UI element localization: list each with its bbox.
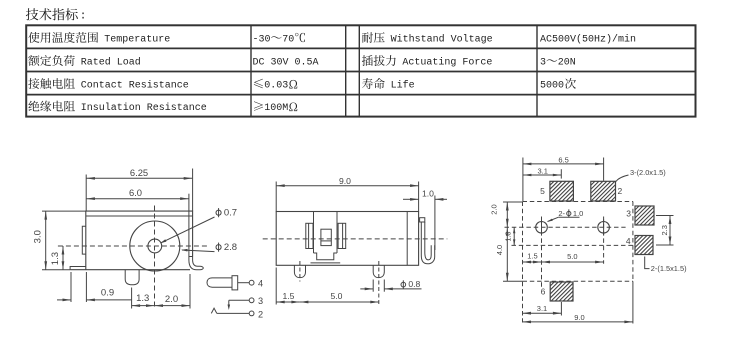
svg-text:3.1: 3.1 <box>537 167 547 176</box>
svg-text:2.0: 2.0 <box>490 204 499 214</box>
front view body outline <box>276 212 418 266</box>
svg-text:1.3: 1.3 <box>50 252 61 265</box>
svg-text:0.8: 0.8 <box>408 279 420 289</box>
svg-text:2-: 2- <box>558 209 565 218</box>
side view left foot <box>70 267 86 270</box>
side view big circle (barrel) <box>130 221 180 271</box>
svg-text:70: 70 <box>282 34 294 45</box>
svg-text:3.1: 3.1 <box>537 304 547 313</box>
svg-text:5.0: 5.0 <box>331 291 343 301</box>
svg-text:Rated Load: Rated Load <box>81 56 141 68</box>
svg-text:1.0: 1.0 <box>422 189 434 199</box>
front view left leg <box>294 265 305 277</box>
table cell DC 30V 0.5A <box>253 57 319 68</box>
svg-text:9.0: 9.0 <box>339 176 351 186</box>
table cell 接触电阻 Contact Resistance <box>28 78 188 91</box>
front view inner right wall <box>406 212 408 266</box>
hole left 2-phi1.0 <box>536 219 548 235</box>
svg-text:6: 6 <box>541 287 546 297</box>
svg-text:3: 3 <box>540 57 546 68</box>
label 3-(2.0x1.5) with leader <box>616 168 666 182</box>
hole right 2-phi1.0 <box>598 219 610 235</box>
dimension 1.5 footprint <box>523 252 542 264</box>
dimension 3.1 top footprint <box>523 167 561 179</box>
table cell <=0.03 ohm <box>254 79 298 92</box>
table cell 插拔力 Actuating Force <box>362 55 493 68</box>
footprint hole centerlines vertical <box>542 217 604 289</box>
svg-text::: : <box>80 11 87 23</box>
dimension 3.1 bottom footprint <box>523 302 562 316</box>
dimension 9.0 front <box>276 176 418 212</box>
svg-text:Insulation Resistance: Insulation Resistance <box>81 102 207 114</box>
front view cavity walls <box>314 212 338 254</box>
table cell 5000次 <box>540 78 576 92</box>
svg-text:5000: 5000 <box>540 81 564 92</box>
dimension 2.0 <box>155 274 191 309</box>
dimension 3.0 <box>33 211 86 270</box>
pad 2 (hatched) <box>571 181 639 201</box>
front view left contact spring <box>306 223 313 248</box>
svg-text:2.0: 2.0 <box>165 294 178 305</box>
dimension phi 0.8 front <box>360 279 421 292</box>
dimension 1.0 front <box>403 189 447 250</box>
svg-text:1.0: 1.0 <box>573 209 583 218</box>
dimension 6.5 footprint <box>523 155 604 201</box>
svg-text:3: 3 <box>258 296 263 306</box>
label phi 2.8 with leader <box>181 242 237 253</box>
schematic collar of pin 4 <box>232 276 238 290</box>
svg-text:2-(1.5x1.5): 2-(1.5x1.5) <box>651 264 687 273</box>
svg-text:1.3: 1.3 <box>503 232 512 242</box>
svg-text:DC 30V 0.5A: DC 30V 0.5A <box>253 57 319 68</box>
dimension 1.3 footprint <box>503 227 515 245</box>
front view center pin contact <box>321 229 331 245</box>
svg-text:6.25: 6.25 <box>130 167 148 178</box>
svg-text:3-(2.0x1.5): 3-(2.0x1.5) <box>630 168 666 177</box>
front view right contact spring <box>338 223 346 248</box>
svg-text:Withstand Voltage: Withstand Voltage <box>391 33 493 45</box>
dimension 2.0 / 4.0 left chain <box>490 202 523 281</box>
table cell 额定负荷 Rated Load <box>28 55 140 68</box>
svg-text:9.0: 9.0 <box>574 313 584 322</box>
label 2-phi1.0 with leader <box>547 209 584 222</box>
svg-text:4.0: 4.0 <box>495 245 504 255</box>
svg-text:-30: -30 <box>253 34 271 45</box>
table cell 绝缘电阻 Insulation Resistance <box>28 101 206 114</box>
table cell AC500V(50Hz)/min <box>540 33 636 45</box>
dimension 1.5 front <box>276 268 300 305</box>
front view horizontal centerline <box>263 238 448 240</box>
svg-text:4: 4 <box>626 236 631 246</box>
svg-text:AC500V(50Hz)/min: AC500V(50Hz)/min <box>540 33 636 45</box>
dimension 6.0 <box>86 187 188 216</box>
pad 6 (hatched) <box>531 282 594 301</box>
svg-text:0.03: 0.03 <box>264 81 288 92</box>
footprint dashed outline <box>523 202 633 323</box>
table cell 使用温度范围 Temperature <box>28 32 170 46</box>
svg-text:4: 4 <box>258 278 263 288</box>
svg-text:20N: 20N <box>558 57 576 68</box>
side view left bump <box>82 226 86 254</box>
front view bottom bracket <box>311 253 341 263</box>
node 2 terminal circle <box>249 311 254 316</box>
dimension 5.0 footprint <box>542 252 604 264</box>
svg-text:Life: Life <box>391 80 415 92</box>
svg-text:1.5: 1.5 <box>527 252 537 261</box>
dimension 5.0 front <box>300 291 379 303</box>
svg-text:0.7: 0.7 <box>224 208 237 219</box>
pad 3 (hatched) <box>616 206 675 225</box>
svg-text:0.9: 0.9 <box>101 288 114 299</box>
pad 5 (hatched) <box>530 181 594 201</box>
svg-text:1.3: 1.3 <box>136 293 149 304</box>
svg-text:2: 2 <box>258 309 263 319</box>
svg-text:Actuating Force: Actuating Force <box>402 56 492 68</box>
svg-text:Contact Resistance: Contact Resistance <box>81 80 189 92</box>
label 2-(1.5x1.5) with elbow <box>645 257 687 274</box>
schematic center pin (plug barrel) pin 4 <box>207 278 232 287</box>
wire node 2 with spring contact <box>211 308 249 313</box>
dimension 2.3 footprint <box>656 216 674 246</box>
footprint horizontal centerline <box>505 226 626 228</box>
front view leg centerlines <box>300 261 379 304</box>
svg-text:100M: 100M <box>264 103 288 114</box>
svg-text:Temperature: Temperature <box>104 34 170 45</box>
table cell 寿命 Life <box>362 78 415 92</box>
svg-text:5.0: 5.0 <box>567 252 577 261</box>
side view horizontal centerline <box>58 245 207 247</box>
node 4 terminal circle <box>249 280 254 285</box>
pad 4 (hatched) <box>616 236 675 255</box>
front view right bent pin (J hook) <box>420 218 435 264</box>
dimension 1.3 bottom <box>132 288 155 309</box>
side view vertical centerline <box>154 206 156 309</box>
footprint inner dashed line (1.3 offset) <box>512 244 633 246</box>
table cell 3~20N <box>540 57 576 68</box>
title 技术指标: <box>26 8 87 22</box>
svg-text:2.8: 2.8 <box>224 242 237 253</box>
dimension 6.25 <box>86 167 192 211</box>
table cell 耐压 Withstand Voltage <box>362 32 493 45</box>
dimension 0.9 <box>57 272 132 302</box>
table grid <box>26 25 695 116</box>
dimension 1.3 left <box>50 246 65 270</box>
node 3 terminal circle <box>249 298 254 303</box>
table cell -30~70C value <box>253 33 305 45</box>
svg-text:3: 3 <box>626 209 631 219</box>
svg-text:6.5: 6.5 <box>558 155 568 164</box>
side view small circle (center pin hole) <box>148 239 162 253</box>
svg-text:6.0: 6.0 <box>129 187 142 198</box>
label phi 0.7 with leader <box>160 208 237 244</box>
side view center pin <box>125 270 139 285</box>
dimension 9.0 footprint <box>523 281 633 323</box>
front view right leg <box>373 265 384 277</box>
wire node 3 with bent contact arm <box>228 300 250 310</box>
wire pin4 to node 4 <box>238 282 250 284</box>
svg-text:2.3: 2.3 <box>660 225 669 235</box>
side view body outline <box>70 211 193 270</box>
side view right bent foot <box>189 257 203 270</box>
table cell >=100M ohm <box>254 101 297 114</box>
svg-text:3.0: 3.0 <box>33 230 44 243</box>
svg-text:5: 5 <box>540 186 545 196</box>
svg-text:1.5: 1.5 <box>283 291 295 301</box>
svg-text:2: 2 <box>618 186 623 196</box>
